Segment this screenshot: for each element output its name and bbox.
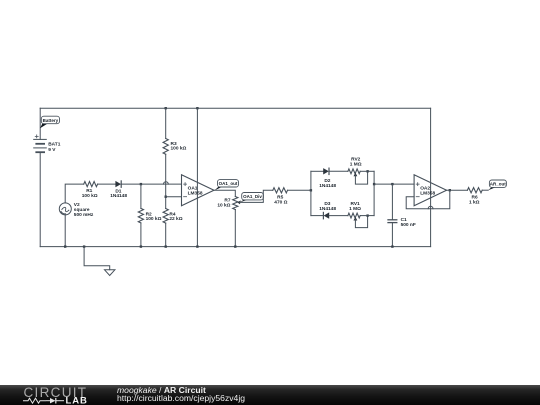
R7 wiper arrow bbox=[237, 200, 240, 204]
svg-text:LM358: LM358 bbox=[188, 191, 203, 197]
svg-text:22 kΩ: 22 kΩ bbox=[169, 216, 182, 222]
battery BAT1 bbox=[34, 135, 47, 152]
wire top rail bbox=[40, 107, 430, 109]
junction dot R2 top bbox=[140, 183, 142, 185]
resistor R2 bbox=[138, 208, 143, 223]
junction dot ground stub bbox=[83, 245, 85, 247]
label D1 1N4148 bbox=[110, 188, 127, 199]
label RV1 1M bbox=[349, 201, 361, 212]
wire OA1 output to R7 bbox=[214, 190, 235, 196]
svg-text:470 Ω: 470 Ω bbox=[274, 199, 287, 205]
label RV2 1M bbox=[350, 157, 362, 168]
wire bottom branch left bbox=[311, 215, 323, 217]
diode D2 bbox=[323, 168, 329, 174]
svg-text:100 kΩ: 100 kΩ bbox=[146, 216, 162, 222]
svg-text:100 kΩ: 100 kΩ bbox=[82, 193, 98, 199]
ground bbox=[105, 270, 115, 276]
svg-text:10 kΩ: 10 kΩ bbox=[217, 203, 230, 209]
junction dot R7 bottom bbox=[234, 245, 236, 247]
svg-text:1N4148: 1N4148 bbox=[110, 193, 127, 199]
junction dot R2 bottom bbox=[140, 245, 142, 247]
wire C1 top lead bbox=[391, 184, 393, 220]
junction dot V2 bottom bbox=[64, 245, 66, 247]
resistor R6 bbox=[467, 188, 482, 193]
junction dot RV2 loop bbox=[366, 170, 368, 172]
wire D3 to RV1 bbox=[329, 215, 348, 217]
svg-text:100 kΩ: 100 kΩ bbox=[171, 146, 187, 152]
diode D1 bbox=[115, 181, 121, 187]
potentiometer RV2 bbox=[348, 169, 360, 174]
label D2 1N4148 bbox=[319, 178, 336, 189]
wire bottom branch right bbox=[360, 215, 374, 217]
flag OA1_out bbox=[215, 180, 239, 191]
label V2 square 500 mHz bbox=[74, 202, 94, 218]
junction dot R3 top bbox=[165, 107, 167, 109]
svg-text:500 nF: 500 nF bbox=[401, 222, 416, 228]
label BAT1 9V bbox=[48, 141, 61, 153]
svg-text:LAB: LAB bbox=[66, 395, 88, 405]
wire R4 bottom lead bbox=[165, 223, 167, 247]
flag OA1_Div bbox=[240, 193, 263, 203]
svg-text:BAT1: BAT1 bbox=[48, 141, 61, 147]
wire top branch left bbox=[311, 170, 323, 172]
wire R3 top lead bbox=[165, 108, 167, 138]
wire R5 to bridge left node bbox=[288, 189, 311, 191]
wire V2 top lead bbox=[65, 184, 84, 203]
svg-text:9 V: 9 V bbox=[48, 147, 56, 153]
svg-text:1N4148: 1N4148 bbox=[319, 183, 336, 189]
flag Battery bbox=[40, 116, 60, 128]
resistor R3 bbox=[163, 139, 168, 155]
footer title text bbox=[117, 386, 245, 402]
wire ground stub bbox=[84, 247, 110, 270]
svg-text:500 mHz: 500 mHz bbox=[74, 212, 94, 218]
label R5 470 bbox=[274, 195, 287, 206]
wire R2 bottom lead bbox=[140, 223, 142, 247]
wire RV1 wiper loop bbox=[355, 216, 367, 228]
wire RV2 wiper loop bbox=[355, 171, 367, 184]
wire D2 to RV2 bbox=[329, 170, 348, 172]
resistor R4 bbox=[163, 209, 168, 224]
wire bridge right vertical bbox=[373, 171, 375, 215]
wire D1 to op-amp + input (hops over R3/R4 vertical) bbox=[121, 182, 181, 184]
wire R2 top lead bbox=[140, 184, 142, 208]
CircuitLab logo bbox=[0, 385, 110, 405]
svg-text:1 MΩ: 1 MΩ bbox=[349, 206, 361, 212]
label R3 100k bbox=[171, 141, 187, 152]
wire R7 wiper to R5 bbox=[240, 190, 273, 202]
wire top branch right bbox=[360, 170, 374, 172]
junction dot R4 bottom bbox=[165, 245, 167, 247]
RV2 wiper arrow bbox=[354, 173, 358, 177]
wire left branch upper (battery top lead) bbox=[39, 108, 41, 139]
op-amp OA2 LM358 bbox=[414, 175, 447, 206]
wire V2 bottom lead bbox=[64, 215, 66, 247]
junction dot OA2 output bbox=[449, 189, 451, 191]
svg-text:1 MΩ: 1 MΩ bbox=[350, 161, 362, 167]
resistor R1 bbox=[84, 182, 98, 187]
wire bottom rail bbox=[40, 246, 430, 248]
junction dot inverting node bbox=[165, 196, 167, 198]
capacitor C1 bbox=[388, 220, 397, 223]
potentiometer RV1 bbox=[348, 213, 360, 218]
junction dot RV1 loop bbox=[366, 214, 368, 216]
junction dot bridge left bbox=[310, 189, 312, 191]
svg-text:OA1_Div: OA1_Div bbox=[243, 194, 262, 199]
svg-text:LM358: LM358 bbox=[420, 191, 435, 197]
label R4 22k bbox=[169, 211, 182, 222]
wire OA2 output to R6 bbox=[447, 189, 468, 191]
resistor R5 bbox=[273, 188, 288, 193]
RV1 wiper arrow bbox=[354, 217, 358, 221]
label C1 500nF bbox=[401, 217, 416, 228]
label OA1 LM358 bbox=[188, 186, 203, 197]
svg-text:OA1_out: OA1_out bbox=[219, 181, 238, 186]
svg-text:1 kΩ: 1 kΩ bbox=[469, 199, 480, 205]
wire OA2 feedback loop (hops over OA2 power line) bbox=[406, 190, 450, 209]
op-amp OA1 LM358 bbox=[182, 175, 215, 206]
label D3 1N4148 bbox=[319, 201, 336, 212]
wire inverting node to op-amp - input bbox=[166, 196, 182, 198]
wire R6 to AR_out bbox=[482, 189, 488, 191]
svg-text:Battery: Battery bbox=[43, 118, 59, 123]
wire bridge output to OA2 + input bbox=[374, 183, 414, 185]
svg-text:1N4148: 1N4148 bbox=[319, 206, 336, 212]
potentiometer R7 bbox=[233, 197, 238, 210]
junction dot OA1 V- bottom bbox=[196, 245, 198, 247]
junction dot C1 top bbox=[391, 183, 393, 185]
junction dot C1 bottom bbox=[391, 245, 393, 247]
wire R3 bottom lead down to inverting node bbox=[165, 154, 167, 208]
junction dot bridge right mid bbox=[373, 183, 375, 185]
wire R1 to D1 bbox=[98, 183, 116, 185]
voltage source V2 bbox=[59, 203, 71, 215]
wire OA2 power rail (V+ to V-) bbox=[430, 108, 432, 246]
label R1 100k bbox=[82, 188, 98, 199]
flag AR_out bbox=[488, 180, 506, 190]
junction dot OA1 V+ top bbox=[196, 107, 198, 109]
wire left branch lower (battery bottom to bottom rail) bbox=[39, 152, 41, 246]
label OA2 LM358 bbox=[420, 186, 435, 197]
wire R7 bottom lead bbox=[234, 210, 236, 247]
svg-text:AR_out: AR_out bbox=[490, 182, 506, 187]
footer bar bbox=[0, 385, 540, 405]
label R7 10k bbox=[217, 198, 231, 209]
label R6 1k bbox=[469, 195, 480, 206]
diode D3 bbox=[323, 212, 329, 218]
wire bridge left vertical bbox=[310, 171, 312, 215]
wire OA1 power rail (V+ to V-) bbox=[196, 108, 198, 246]
label R2 100k bbox=[146, 211, 162, 222]
wire C1 bottom lead bbox=[391, 223, 393, 247]
